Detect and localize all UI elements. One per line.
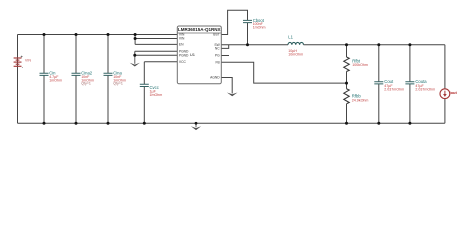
node Cina2 top junction	[75, 33, 78, 36]
wire Cboot bottom	[247, 23, 249, 45]
wire L1 to Vout rail	[304, 44, 445, 46]
wire Cina2 column	[75, 35, 77, 124]
node Cout bottom junction	[377, 122, 380, 125]
svg-text:100kOhm: 100kOhm	[352, 63, 368, 67]
label Rfbb name and value	[352, 93, 369, 102]
svg-text:2.037mOhm: 2.037mOhm	[415, 87, 435, 91]
svg-text:1mOhm: 1mOhm	[253, 26, 266, 30]
node ground rail junction	[195, 122, 198, 125]
label Cout name and values	[384, 79, 404, 91]
capacitor Cina2	[72, 73, 81, 75]
svg-text:VCC: VCC	[179, 60, 187, 64]
resistor Rfbt	[344, 57, 349, 72]
svg-text:EN: EN	[179, 42, 184, 46]
wire VIN branch column	[134, 35, 136, 45]
wire VIN2 to pin	[135, 38, 177, 40]
wire VCC	[144, 61, 177, 63]
node VIN rail junction	[134, 33, 137, 36]
node Cvcc bottom junction	[143, 122, 146, 125]
wire Iout column	[444, 45, 446, 124]
svg-text:L1: L1	[288, 35, 293, 40]
svg-text:NC: NC	[215, 47, 220, 51]
node Vout Couta junction	[408, 43, 411, 46]
wire bottom ground rail	[18, 122, 445, 124]
capacitor Cvcc	[140, 84, 149, 86]
wire Rfbb column	[346, 83, 348, 123]
wire PGND2	[135, 54, 178, 56]
wire Couta column	[409, 45, 411, 124]
svg-text:Iout: Iout	[450, 90, 458, 95]
svg-text:PG: PG	[215, 54, 220, 58]
voltage source VIN battery	[14, 58, 22, 66]
wire NC stub	[221, 45, 228, 49]
node SW Cboot junction	[246, 43, 249, 46]
inductor L1	[288, 42, 303, 44]
label Rfbt name and value	[352, 58, 368, 67]
current source Iout	[440, 89, 450, 99]
svg-text:24.9kOhm: 24.9kOhm	[352, 98, 369, 102]
ground bottom rail arrow	[191, 123, 201, 130]
label Cina2 name and values	[81, 70, 94, 85]
wire Cvcc column	[143, 62, 145, 124]
node Cina bottom junction	[107, 122, 110, 125]
label battery polarity marks	[21, 54, 24, 69]
wire top VIN rail	[18, 34, 178, 36]
svg-text:BST: BST	[213, 33, 219, 37]
wire battery column	[17, 35, 19, 124]
wire Cina column	[107, 35, 109, 124]
label Cvcc name and values	[150, 85, 163, 97]
current source Iout arrow head	[443, 94, 447, 97]
wire PG stub	[221, 55, 229, 57]
capacitor Cout	[374, 82, 383, 84]
wire Rfbt column	[346, 45, 348, 83]
resistor Rfbb	[344, 89, 349, 104]
svg-text:U1: U1	[190, 52, 196, 57]
wire Cin column	[43, 35, 45, 124]
svg-text:PGND: PGND	[179, 53, 189, 57]
svg-text:Qty=1: Qty=1	[113, 82, 123, 86]
label Cboot name and values	[253, 18, 266, 30]
wire PGND ground stub	[134, 51, 136, 55]
node Vout Rfbt junction	[345, 43, 348, 46]
wire FB	[221, 62, 346, 83]
node Cina top junction	[107, 33, 110, 36]
capacitor Cboot	[243, 20, 252, 22]
node Cin top junction	[43, 33, 46, 36]
label L1 name and values	[288, 35, 303, 57]
capacitor Cina	[104, 73, 113, 75]
node PGND junction	[133, 54, 136, 57]
node Cina2 bottom junction	[75, 122, 78, 125]
node Vout Cout junction	[377, 43, 380, 46]
wire PGND1	[135, 50, 178, 52]
node Couta bottom junction	[408, 122, 411, 125]
node Rfbb bottom junction	[345, 122, 348, 125]
node FB divider junction	[345, 82, 348, 85]
ground PGND arrow	[130, 55, 140, 66]
svg-text:1mOhm: 1mOhm	[150, 93, 163, 97]
wire Cout column	[378, 45, 380, 124]
label Couta name and values	[415, 79, 435, 91]
svg-text:AGND: AGND	[210, 76, 220, 80]
wire AGND stub	[221, 78, 232, 94]
node VIN2 junction	[134, 37, 137, 40]
IC U1 LMR36015A-Q1RNX	[177, 26, 221, 84]
ground AGND arrow	[227, 93, 238, 97]
wire EN to pin	[135, 43, 177, 45]
svg-text:2.037mOhm: 2.037mOhm	[384, 87, 404, 91]
capacitor Cin	[40, 73, 49, 75]
svg-text:Qty=1: Qty=1	[81, 82, 91, 86]
svg-text:VIN: VIN	[25, 58, 31, 62]
label Cin name and values	[49, 70, 62, 82]
svg-text:VIN: VIN	[179, 37, 185, 41]
label Cina name and values	[113, 70, 126, 85]
node Cin bottom junction	[43, 122, 46, 125]
svg-text:10mOhm: 10mOhm	[288, 52, 303, 56]
svg-text:1mOhm: 1mOhm	[49, 79, 62, 83]
capacitor Couta	[405, 82, 414, 84]
wire SW to L1	[221, 44, 288, 46]
wire BST to Cboot	[221, 10, 247, 34]
